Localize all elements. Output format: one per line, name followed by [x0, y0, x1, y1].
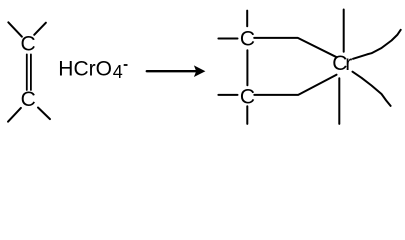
svg-text:C: C [240, 85, 255, 108]
svg-text:C: C [21, 33, 36, 56]
svg-text:HCrO: HCrO [58, 58, 112, 81]
svg-text:C: C [240, 27, 255, 50]
svg-text:Cr: Cr [332, 52, 352, 75]
svg-text:4: 4 [113, 62, 123, 82]
svg-text:C: C [21, 88, 36, 111]
